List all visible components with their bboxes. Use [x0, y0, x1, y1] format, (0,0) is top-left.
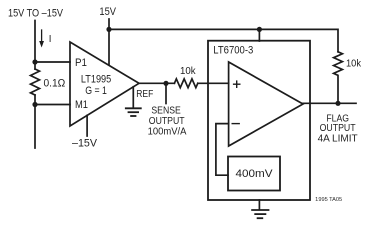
svg-text:REF: REF	[136, 89, 153, 100]
svg-text:OUTPUT: OUTPUT	[149, 116, 185, 127]
wire: shunt bottom to M1 input	[35, 104, 70, 106]
svg-text:10k: 10k	[346, 59, 361, 70]
wire: comparator V+ stub	[258, 29, 260, 41]
resistor R1 10k series	[174, 66, 197, 88]
svg-text:100mV/A: 100mV/A	[148, 127, 187, 138]
resistor 0.1ohm shunt	[31, 69, 66, 95]
wire: 10k to comparator plus input	[198, 82, 229, 84]
svg-text:400mV: 400mV	[236, 168, 274, 180]
svg-text:0.1Ω: 0.1Ω	[44, 78, 66, 90]
svg-text:10k: 10k	[180, 66, 196, 77]
comparator U2 triangle	[229, 62, 303, 146]
junction dot: comparator V+ tap	[257, 27, 262, 32]
junction dot: shunt bottom node	[32, 102, 37, 107]
svg-text:15V: 15V	[99, 6, 116, 18]
ground: LT6700 box	[252, 200, 268, 218]
wire: comparator output to flag node	[303, 102, 356, 104]
wire: amp output to 10k resistor	[139, 82, 174, 84]
label: SENSE OUTPUT 100mV/A	[148, 106, 187, 138]
wire: minus input to 400mV reference	[216, 124, 229, 176]
svg-text:SENSE: SENSE	[151, 106, 181, 117]
svg-text:15V TO –15V: 15V TO –15V	[8, 8, 64, 20]
junction dot: shunt top node	[32, 59, 37, 64]
svg-text:M1: M1	[75, 99, 88, 111]
svg-text:I: I	[49, 34, 52, 45]
ground: REF pin	[126, 87, 141, 116]
junction dot: flag node	[335, 101, 340, 106]
svg-text:P1: P1	[75, 57, 87, 69]
wire: top 15V rail	[109, 29, 338, 51]
svg-text:OUTPUT: OUTPUT	[320, 123, 356, 134]
wire: -15V supply stub	[86, 115, 88, 136]
svg-text:1995 TA05: 1995 TA05	[315, 197, 342, 203]
current arrow I	[39, 30, 51, 48]
op-amp U1 LT1995	[70, 42, 139, 126]
wire: left supply rail	[34, 21, 36, 149]
svg-text:G = 1: G = 1	[85, 85, 107, 97]
wire: LT1995 V+ supply stub	[108, 19, 110, 65]
box: comparator U2 LT6700-3	[208, 41, 310, 200]
wire: shunt top to P1 input	[35, 61, 70, 63]
junction dot: sense node	[163, 81, 168, 86]
svg-text:–15V: –15V	[72, 137, 98, 149]
svg-text:LT6700-3: LT6700-3	[213, 44, 253, 56]
voltage source 400mV	[228, 157, 280, 191]
label: FLAG OUTPUT 4A LIMIT	[318, 113, 358, 144]
svg-text:4A LIMIT: 4A LIMIT	[318, 133, 358, 144]
wire: sense output stub	[165, 83, 167, 103]
resistor R2 10k pull-up	[334, 52, 362, 104]
svg-text:LT1995: LT1995	[81, 73, 111, 85]
junction dot: 15V rail tap	[106, 27, 111, 32]
